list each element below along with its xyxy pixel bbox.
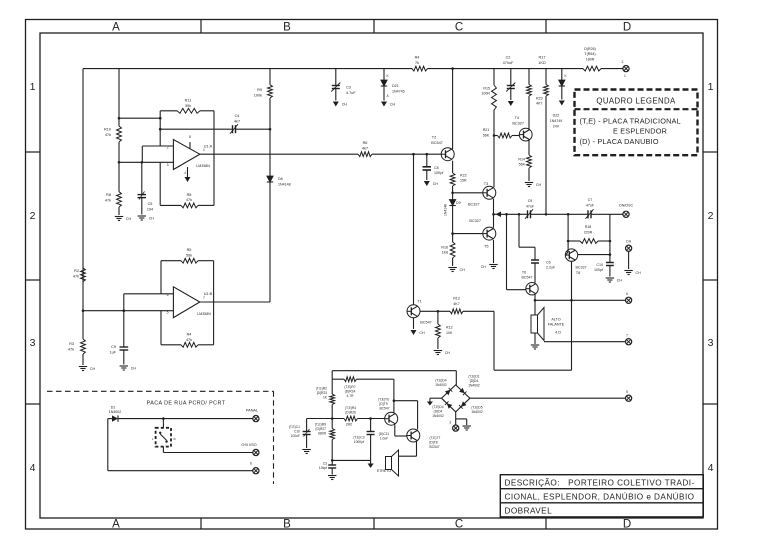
- svg-text:BC327: BC327: [468, 203, 480, 207]
- svg-text:LM358N: LM358N: [197, 312, 211, 316]
- wire U1:A lower feedback left vertical: [159, 162, 161, 205]
- svg-text:6: 6: [250, 462, 252, 466]
- resistor R10 47k: [104, 126, 121, 142]
- ground below R12: [434, 351, 451, 356]
- wire R23b to base rail: [331, 405, 333, 419]
- svg-text:10Kpf: 10Kpf: [434, 171, 443, 175]
- wire U1:A pin2 input: [142, 145, 173, 147]
- svg-text:56k: 56k: [186, 254, 192, 258]
- svg-text:4.7uF: 4.7uF: [346, 91, 356, 95]
- svg-text:1N4148: 1N4148: [278, 183, 291, 187]
- svg-text:C10: C10: [596, 263, 603, 267]
- svg-text:47uF: 47uF: [586, 204, 595, 208]
- svg-text:C8: C8: [434, 166, 439, 170]
- speaker ETRETO (intercom): [386, 450, 399, 476]
- wire R6 to T2 base: [372, 153, 441, 155]
- svg-text:C7: C7: [588, 198, 593, 202]
- svg-text:4: 4: [30, 462, 36, 474]
- label bridge diode D1 top-right: [468, 375, 480, 388]
- svg-text:7: 7: [626, 334, 628, 338]
- capacitor C3 4.7uF: [331, 69, 356, 101]
- svg-text:4: 4: [708, 462, 714, 474]
- svg-text:4K7: 4K7: [536, 102, 542, 106]
- wire U1:B lower feedback left vertical: [160, 311, 162, 345]
- svg-text:47k: 47k: [186, 198, 192, 202]
- wire U1:B feedback left vertical: [160, 261, 162, 294]
- capacitor C9 1uF: [109, 311, 128, 365]
- resistor R27 680R: [315, 419, 335, 440]
- svg-text:T8: T8: [576, 271, 580, 275]
- resistor R16 1K8: [441, 234, 455, 258]
- wire input step U1:B: [123, 294, 125, 311]
- svg-text:CH: CH: [459, 268, 465, 272]
- wire emitter node to terminal 6: [535, 299, 626, 301]
- resistor R4 47k (U1:B feedback): [181, 333, 198, 348]
- resistor R11 39k (U1:A feedback): [177, 99, 200, 114]
- node feedback junction: [159, 117, 162, 120]
- wire C6 branch: [519, 214, 535, 260]
- svg-text:R11: R11: [185, 99, 192, 103]
- wire R5 right lead: [198, 260, 214, 262]
- ground below C10: [606, 278, 623, 283]
- svg-text:(D) - PLACA DANUBIO: (D) - PLACA DANUBIO: [580, 137, 659, 146]
- wire R14 to ground: [528, 168, 530, 181]
- label bridge diode D4 top-left: [435, 379, 447, 387]
- description title block: [500, 475, 703, 517]
- wire R23 to T4 collector: [528, 96, 530, 129]
- ground below R14: [525, 183, 542, 188]
- wire mid rail segment 2: [560, 213, 586, 215]
- svg-text:8: 8: [189, 135, 191, 139]
- node rail junction x506.5: [505, 213, 508, 216]
- resistor R8 47k: [105, 192, 122, 207]
- speaker ALTO FALANTE 4ohm: [531, 308, 565, 341]
- wire U1:A lower feedback right vertical: [213, 154, 215, 205]
- node T9 collector tap: [393, 399, 396, 402]
- wire left rail vertical: [82, 69, 84, 339]
- svg-text:4K7: 4K7: [453, 302, 459, 306]
- junction arrow marker on mid rail: [496, 212, 502, 218]
- node rail junction x519: [518, 213, 521, 216]
- capacitor C11 100Kpf: [353, 419, 389, 461]
- transistor T8 BC337: [565, 249, 586, 275]
- svg-text:C: C: [455, 519, 463, 531]
- svg-text:R5: R5: [187, 248, 192, 252]
- svg-text:2: 2: [708, 210, 714, 222]
- svg-text:(T,E)D1: (T,E)D1: [468, 375, 479, 379]
- svg-text:QUADRO LEGENDA: QUADRO LEGENDA: [596, 97, 676, 106]
- wire T1 emitter: [413, 318, 415, 329]
- svg-text:PACA DE RUA PCRD/ PCRT: PACA DE RUA PCRD/ PCRT: [147, 401, 226, 407]
- wire relay top lead: [162, 419, 164, 428]
- svg-text:(T,E)C3: (T,E)C3: [353, 436, 364, 440]
- svg-text:[D]T9: [D]T9: [379, 402, 387, 406]
- svg-text:B: B: [283, 22, 291, 34]
- svg-text:2M2: 2M2: [346, 423, 353, 427]
- svg-text:C4: C4: [235, 114, 240, 118]
- resistor R5 56k (U1:B feedback): [181, 248, 198, 263]
- border row numbers left: [30, 81, 36, 474]
- op-amp U1:A LM358N: [167, 135, 213, 170]
- svg-text:CH: CH: [131, 367, 137, 371]
- terminal 6 (street plate): [250, 462, 259, 474]
- wire mid rail left segment: [494, 213, 526, 215]
- node output-T1 junction: [412, 153, 415, 156]
- node oscillator bottom left: [331, 459, 334, 462]
- terminal 2: [622, 60, 630, 78]
- capacitor C9 47uF (series): [525, 199, 560, 219]
- ground U1:A pin4: [184, 167, 190, 182]
- transistor T5 BC327: [469, 219, 495, 249]
- node C9b junction: [123, 309, 126, 312]
- svg-text:1.0uF: 1.0uF: [380, 437, 388, 441]
- svg-text:47k: 47k: [105, 199, 111, 203]
- svg-text:CIONAL, ESPLENDOR, DANÚBIO e D: CIONAL, ESPLENDOR, DANÚBIO e DANÚBIO: [505, 492, 695, 502]
- node pin3-C5 junction: [141, 161, 144, 164]
- svg-text:3: 3: [167, 163, 169, 167]
- wire R12 to ground: [437, 338, 439, 349]
- wire bridge bottom node: [449, 412, 466, 425]
- svg-text:5: 5: [626, 390, 628, 394]
- transistor T10 BC547: [407, 429, 441, 449]
- resistor R3 47k: [68, 339, 86, 354]
- wire T9 emitter to T10 base: [395, 425, 407, 436]
- node R18 right junction: [609, 240, 612, 243]
- svg-text:BC547: BC547: [522, 276, 533, 280]
- svg-text:CH: CH: [626, 240, 632, 244]
- resistor R23 4K7: [527, 69, 543, 106]
- svg-text:CH: CH: [126, 217, 132, 221]
- svg-text:PANAL: PANAL: [246, 409, 258, 413]
- wire R10 to node pin3: [118, 142, 120, 162]
- resistor R13 4K7: [450, 297, 463, 314]
- svg-text:CH: CH: [536, 183, 542, 187]
- svg-text:R8: R8: [106, 193, 111, 197]
- wire T8 collector: [578, 254, 610, 256]
- wire U1:A pin3 input: [119, 161, 173, 163]
- label bridge diode D5 bottom-right: [471, 406, 483, 414]
- wire feedback right vertical: [213, 111, 215, 154]
- node T2 collector rail junction: [451, 67, 454, 70]
- wire relay to OSI terminal: [163, 452, 252, 454]
- wire lower feedback left lead: [160, 204, 181, 206]
- wire rail to T6 base vertical: [506, 214, 508, 289]
- svg-text:FALANTE: FALANTE: [548, 323, 565, 327]
- wire R22 to emitter node: [452, 186, 454, 193]
- wire oscillator left column top: [331, 371, 333, 380]
- ground below C9: [120, 366, 137, 371]
- svg-text:BC547: BC547: [430, 445, 440, 449]
- wire R11 right lead: [200, 110, 214, 112]
- label bridge diode D4 bottom-left: [432, 405, 444, 418]
- node T1-R12 junction: [437, 310, 440, 313]
- resistor R24 4.7R: [332, 377, 394, 398]
- terminal 7: [626, 334, 632, 345]
- svg-text:56K: 56K: [519, 163, 526, 167]
- svg-text:7k: 7k: [415, 61, 419, 65]
- svg-text:BC547: BC547: [379, 407, 389, 411]
- wire feedback left vertical: [159, 111, 161, 146]
- transistor T6 BC547: [522, 271, 539, 295]
- wire U1:B lower feedback right vertical: [213, 302, 215, 345]
- wire T2 collector to top rail: [452, 69, 454, 150]
- wire T3 emitter to T5: [493, 199, 495, 228]
- border inner frame: [40, 33, 703, 518]
- section divider dashed line: [47, 390, 274, 392]
- wire T6 emitter down: [534, 295, 536, 316]
- terminal OSI I/SO: [241, 443, 259, 456]
- svg-text:A: A: [112, 519, 120, 531]
- wire to T3 base: [453, 192, 483, 194]
- svg-text:1N4749: 1N4749: [550, 119, 563, 123]
- svg-text:CH: CH: [149, 217, 155, 221]
- node rail junction x546: [545, 213, 548, 216]
- diode D8 1N4148: [267, 129, 291, 302]
- svg-text:[D]D4: [D]D4: [470, 379, 479, 383]
- svg-text:C3: C3: [323, 462, 327, 466]
- node oscillator base rail left: [331, 417, 334, 420]
- terminal 3 (bridge): [453, 425, 459, 431]
- border row ticks left: [26, 152, 41, 404]
- wire R3 to ground: [82, 354, 84, 365]
- node junction x119 y118: [118, 117, 121, 120]
- svg-text:R12: R12: [446, 326, 453, 330]
- ground below C2: [508, 101, 514, 106]
- svg-text:T(R64): T(R64): [584, 52, 595, 56]
- legend box QUADRO LEGENDA: [575, 90, 698, 156]
- wire R8 to ground: [118, 207, 120, 215]
- svg-text:1N4002: 1N4002: [468, 383, 480, 387]
- label PACA DE RUA: [147, 401, 226, 407]
- svg-text:D(R26): D(R26): [584, 47, 596, 51]
- capacitor C6 2.2uF: [531, 260, 556, 283]
- svg-text:3: 3: [30, 337, 36, 349]
- border row ticks right: [703, 152, 718, 404]
- svg-text:CH: CH: [390, 103, 396, 107]
- zener DZ1 1N4745: [381, 69, 405, 101]
- svg-text:3: 3: [708, 337, 714, 349]
- svg-text:4k7: 4k7: [362, 147, 368, 151]
- ground below C10b: [302, 450, 310, 454]
- svg-text:220R: 220R: [584, 231, 593, 235]
- ground below C5: [138, 216, 155, 221]
- svg-text:LM358N: LM358N: [196, 164, 210, 168]
- resistor R12 10K: [436, 311, 453, 338]
- node output-C8 junction: [426, 153, 429, 156]
- svg-text:E ESPLENDOR: E ESPLENDOR: [613, 126, 667, 135]
- svg-text:(T,E)T6: (T,E)T6: [378, 398, 389, 402]
- ground below DZ2: [559, 101, 565, 106]
- svg-text:T1: T1: [417, 300, 421, 304]
- node R21 tap: [493, 134, 496, 137]
- wire R13 to loop corner: [463, 310, 494, 312]
- svg-text:U1:A: U1:A: [204, 145, 213, 149]
- svg-text:15R: 15R: [460, 179, 467, 183]
- svg-text:(T,E)T7: (T,E)T7: [430, 436, 441, 440]
- svg-text:A: A: [112, 22, 120, 34]
- svg-text:4,7R: 4,7R: [347, 394, 355, 398]
- svg-text:1uF: 1uF: [109, 351, 116, 355]
- ground below C3b: [328, 476, 336, 480]
- wire bottom leg to terminal: [108, 470, 253, 472]
- svg-text:T5: T5: [484, 245, 488, 249]
- svg-text:R9: R9: [257, 88, 262, 92]
- capacitor C3b 10kpf: [319, 460, 336, 474]
- svg-text:CH: CH: [419, 331, 425, 335]
- wire R15 to T3 collector: [493, 110, 495, 187]
- resistor R21 56K: [483, 128, 512, 138]
- svg-text:1KΩ: 1KΩ: [538, 61, 546, 65]
- wire CH terminal to ground: [628, 251, 630, 269]
- svg-text:R21: R21: [483, 128, 490, 132]
- ground below R3: [79, 367, 96, 372]
- svg-text:100uF: 100uF: [291, 434, 300, 438]
- svg-text:(D)R27: (D)R27: [315, 427, 326, 431]
- wire rail down right vertical: [609, 214, 611, 262]
- wire to T5 base: [453, 233, 484, 235]
- wire input step U1:A: [141, 146, 143, 162]
- svg-text:R14: R14: [518, 158, 525, 162]
- svg-text:CH: CH: [433, 182, 439, 186]
- resistor R2 47k (in left rail): [73, 268, 86, 282]
- wire R17 down to mid rail: [545, 96, 547, 214]
- bridge rectifier D4/D5 diamond: [442, 385, 470, 412]
- svg-text:4: 4: [184, 171, 186, 175]
- resistor R4 7k (series in top rail): [412, 56, 428, 72]
- label CH near T5 ground: [481, 265, 487, 269]
- svg-text:47k: 47k: [68, 348, 74, 352]
- svg-text:[D]R23: [D]R23: [317, 391, 327, 395]
- resistor R9 100k: [254, 69, 273, 98]
- svg-text:1: 1: [708, 81, 714, 93]
- wire inverting node to C4/D8: [160, 128, 230, 130]
- svg-text:180R: 180R: [586, 58, 595, 62]
- svg-text:C5: C5: [148, 202, 153, 206]
- ground below speaker: [531, 345, 539, 349]
- wire R9 to junction: [269, 98, 271, 129]
- transistor T2 BC547: [431, 136, 454, 161]
- wire x119 to feedback node: [119, 117, 160, 119]
- wire base rail to T9: [358, 418, 385, 420]
- wire T8 base entry: [566, 252, 568, 256]
- svg-text:BC547: BC547: [420, 321, 432, 325]
- section divider dashed vertical: [273, 391, 275, 484]
- svg-text:(T,E)R9: (T,E)R9: [315, 423, 326, 427]
- node T8 emitter junction y300: [570, 299, 573, 302]
- capacitor C10 100pf: [594, 263, 614, 277]
- diode D1 1N4002: [108, 406, 253, 422]
- border row numbers right: [708, 81, 714, 474]
- capacitor C8 10Kpf: [423, 154, 444, 180]
- svg-text:10K: 10K: [446, 331, 453, 335]
- svg-text:DESCRIÇÃO: PORTEIRO COLETIVO: DESCRIÇÃO: PORTEIRO COLETIVO TRADI-: [505, 478, 695, 488]
- svg-text:39k: 39k: [185, 104, 191, 108]
- wire U1:A output: [200, 153, 358, 155]
- svg-text:DOBRAVEL: DOBRAVEL: [505, 507, 553, 516]
- node T2 emitter junction: [451, 192, 454, 195]
- svg-text:R23: R23: [536, 97, 543, 101]
- svg-text:56K: 56K: [483, 134, 490, 138]
- wire column x119 from top rail: [118, 69, 120, 126]
- svg-text:2: 2: [622, 60, 624, 64]
- svg-text:(T,E)R2: (T,E)R2: [316, 387, 327, 391]
- svg-text:ON/OSC: ON/OSC: [619, 204, 634, 208]
- wire top rail to terminal 2: [601, 68, 623, 70]
- svg-text:1K8: 1K8: [442, 251, 448, 255]
- svg-text:6: 6: [626, 292, 628, 296]
- resistor R23b 1K: [316, 379, 335, 404]
- svg-text:T3: T3: [484, 182, 488, 186]
- svg-text:D: D: [623, 22, 631, 34]
- wire T4 emitter: [528, 140, 530, 155]
- svg-text:R6: R6: [363, 141, 368, 145]
- op-amp U1:B LM358N: [167, 287, 213, 318]
- ground below R16: [448, 268, 465, 273]
- wire bridge left to ground: [427, 398, 442, 405]
- wire U1:B pin5 input: [83, 310, 173, 312]
- wire T5 collector to ground: [493, 240, 495, 263]
- svg-text:C6: C6: [546, 261, 551, 265]
- wire U1:B pin6 input: [124, 293, 174, 295]
- ground below C3: [333, 102, 347, 107]
- svg-text:3: 3: [449, 421, 451, 425]
- svg-text:1: 1: [203, 148, 205, 152]
- svg-text:BC547: BC547: [431, 141, 443, 145]
- svg-text:(T,E)D4: (T,E)D4: [435, 379, 446, 383]
- svg-text:CH: CH: [90, 367, 96, 371]
- resistor R26 2M2: [307, 406, 358, 427]
- wire R21 to T4 base: [512, 135, 519, 137]
- terminal PANAL: [246, 409, 259, 422]
- node T6 emitter junction: [534, 299, 537, 302]
- wire T8 emitter down: [571, 261, 573, 370]
- svg-text:T2: T2: [432, 136, 436, 140]
- svg-text:R10: R10: [104, 128, 111, 132]
- svg-text:(D)D4: (D)D4: [434, 409, 443, 413]
- svg-text:4 Ω: 4 Ω: [555, 331, 561, 335]
- zener DZ2 1N4749 24V: [550, 69, 568, 129]
- svg-text:100Kpf: 100Kpf: [354, 440, 365, 444]
- svg-text:R4: R4: [415, 56, 420, 60]
- wire top supply rail mid segment: [428, 68, 584, 70]
- node R9-D8 junction: [269, 128, 272, 131]
- svg-text:680R: 680R: [318, 432, 327, 436]
- svg-text:47k: 47k: [105, 133, 111, 137]
- svg-text:100pf: 100pf: [594, 268, 603, 272]
- wire rail to R18/T8 base: [567, 214, 569, 251]
- ground below T5: [489, 265, 497, 269]
- terminal 6: [626, 292, 632, 303]
- wire R4 left lead: [161, 344, 181, 346]
- capacitor C5 104: [138, 162, 154, 214]
- resistor R14 56K: [518, 155, 531, 168]
- resistor R6 4k7: [358, 141, 372, 157]
- terminal ON/OSC: [619, 204, 634, 218]
- transistor T3 BC327: [468, 182, 496, 207]
- svg-text:OSI I/SO: OSI I/SO: [241, 443, 256, 447]
- terminal 5: [626, 390, 632, 401]
- capacitor C4 4k7: [230, 114, 270, 134]
- node rail junction x568: [567, 213, 570, 216]
- wire oscillator bottom rail: [332, 459, 370, 461]
- node junction x119 pin3: [118, 161, 121, 164]
- svg-text:100k: 100k: [254, 94, 262, 98]
- svg-text:R18: R18: [585, 225, 592, 229]
- border column letters top: [112, 22, 631, 34]
- wire R16 to ground: [452, 258, 454, 266]
- wire R5 left lead: [161, 260, 181, 262]
- wire pin3 node down to R8: [118, 162, 120, 191]
